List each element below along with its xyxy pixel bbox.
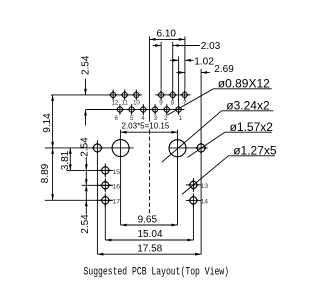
dimension 9.14 (42, 95, 54, 148)
svg-text:10: 10 (133, 99, 140, 106)
extension line row1 left (51, 94, 108, 96)
extension line big hole left vertical (120, 130, 122, 225)
extension line hole axis right (169, 147, 208, 149)
dimension 2.54 middle (79, 137, 90, 214)
dimension 8.89 (40, 148, 54, 200)
svg-text:1.02: 1.02 (194, 57, 214, 68)
svg-text:15.04: 15.04 (138, 229, 163, 240)
svg-text:8.89: 8.89 (40, 163, 51, 183)
extension line pin15 (67, 169, 113, 171)
svg-text:1: 1 (179, 115, 183, 122)
svg-text:9.14: 9.14 (42, 113, 53, 133)
svg-text:14: 14 (201, 199, 209, 206)
svg-text:17: 17 (113, 199, 121, 206)
svg-text:2.54: 2.54 (81, 55, 92, 75)
extension line pin7 top (184, 37, 186, 90)
extension line row2 left (86, 109, 114, 111)
dimension 9.65 (121, 215, 178, 227)
svg-text:9: 9 (159, 99, 163, 106)
pin 10 (131, 90, 143, 101)
dimension 2.03 (153, 41, 221, 52)
pin 4 (138, 104, 150, 115)
svg-text:17.58: 17.58 (137, 244, 162, 255)
extension line pin16 (82, 184, 113, 186)
svg-text:2.69: 2.69 (214, 64, 234, 75)
pin 12 (107, 90, 119, 101)
svg-text:16: 16 (113, 184, 121, 191)
extension line hole axis left (45, 147, 134, 149)
locating hole small right (195, 142, 207, 154)
svg-text:15: 15 (113, 169, 121, 176)
extension line pin17 column down (104, 204, 106, 240)
dimension 2.03*5=10.15 (120, 121, 177, 133)
svg-text:9.65: 9.65 (138, 215, 158, 226)
dimension 6.10 (150, 28, 185, 41)
svg-text:2.03: 2.03 (201, 41, 221, 52)
pin 2 (161, 104, 173, 115)
svg-text:Suggested PCB Layout(Top View): Suggested PCB Layout(Top View) (84, 267, 230, 279)
svg-text:ø1.27x5: ø1.27x5 (233, 144, 277, 158)
svg-text:ø0.89X12: ø0.89X12 (218, 77, 270, 91)
leader label hole diameter 3.24 (162, 99, 273, 163)
pin 15 (98, 163, 113, 177)
pin 17 (98, 193, 113, 207)
extension line pin8 (172, 42, 174, 89)
extension line big hole right vertical (177, 130, 179, 225)
pin 11 (119, 90, 131, 101)
dimension 17.58 (97, 244, 201, 256)
mounting hole big right (169, 140, 186, 157)
leader label hole diameter 0.89 (167, 77, 271, 116)
leader label hole diameter 1.57 (188, 120, 274, 157)
pin 8 (167, 90, 179, 101)
extension line small hole left vertical (96, 140, 98, 254)
leader label hole diameter 1.27 (182, 144, 277, 195)
pin 3 (149, 104, 161, 115)
svg-text:6.10: 6.10 (157, 28, 177, 39)
pin 14 (186, 193, 201, 207)
pin 9 (155, 90, 167, 101)
pin 5 (126, 104, 138, 115)
locating hole small left (91, 142, 103, 154)
dimension 3.81 (60, 148, 72, 171)
pin 6 (114, 104, 126, 115)
dimension 2.54 bottom (80, 179, 91, 233)
svg-text:2.54: 2.54 (79, 137, 90, 157)
dimension 2.54 top (81, 55, 92, 125)
extension line pin1 (178, 57, 180, 104)
svg-text:8: 8 (171, 99, 175, 106)
pin 1 (173, 104, 185, 115)
svg-text:13: 13 (201, 183, 209, 190)
extension line pin17 (45, 199, 113, 201)
centerline (149, 37, 151, 216)
pin 16 (98, 178, 113, 192)
pin 13 (186, 178, 201, 192)
svg-text:ø3.24x2: ø3.24x2 (226, 99, 270, 113)
dimension 1.02 (170, 57, 214, 68)
svg-text:11: 11 (122, 99, 129, 106)
svg-text:2.54: 2.54 (80, 214, 91, 234)
svg-text:2.03*5=10.15: 2.03*5=10.15 (122, 121, 170, 130)
pin 7 (179, 90, 191, 101)
mounting hole big left (112, 140, 129, 157)
dimension 15.04 (105, 229, 193, 241)
extension line pin14 column down (192, 204, 194, 240)
svg-text:6: 6 (114, 115, 118, 122)
dimension 2.69 (176, 64, 234, 75)
extension line pin9 (160, 42, 162, 89)
svg-text:ø1.57x2: ø1.57x2 (230, 120, 274, 134)
extension line small hole right vertical (200, 69, 202, 254)
svg-text:12: 12 (111, 99, 118, 106)
svg-text:3.81: 3.81 (60, 150, 71, 170)
